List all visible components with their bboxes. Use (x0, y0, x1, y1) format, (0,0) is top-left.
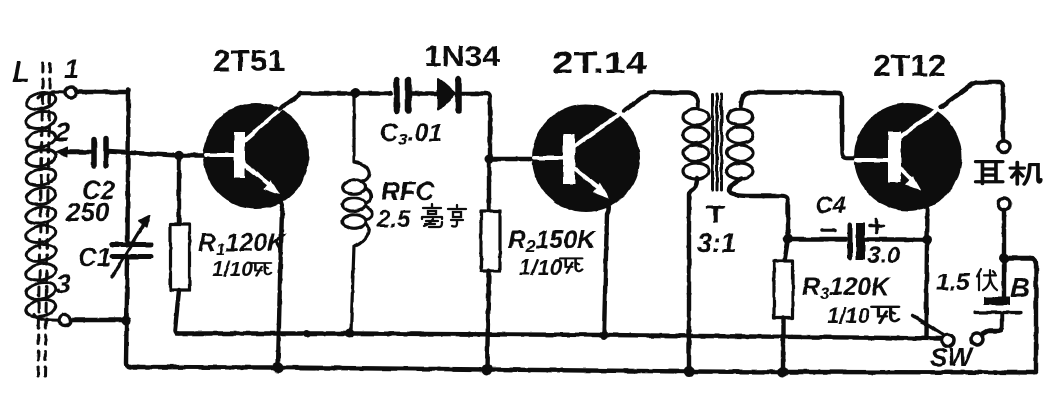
node 3 terminal (60, 315, 71, 326)
junction base 2T51 (174, 151, 183, 160)
junction C4 right / emitter 2T12 (922, 235, 932, 245)
label wa (R3) (872, 307, 899, 323)
wire junction to battery (1002, 258, 1006, 297)
svg-text:R1120K: R1120K (198, 229, 287, 259)
svg-text:R3120K: R3120K (802, 273, 891, 303)
svg-text:R2150K: R2150K (508, 226, 597, 256)
wire C2 to base junction (108, 152, 179, 156)
node 1 terminal (66, 87, 77, 98)
label wa (R1) (250, 263, 271, 276)
wire left vertical (tap1 down to C1) (128, 90, 129, 241)
wire base 2T51 (179, 153, 206, 157)
wire primary bottom to bus (689, 178, 697, 370)
transformer core (713, 94, 722, 190)
label fu (1.5V) (977, 269, 997, 290)
junction RFC bottom (346, 329, 355, 338)
label plus (870, 220, 883, 233)
svg-text:1/10: 1/10 (212, 258, 253, 281)
label minus (822, 228, 835, 232)
ferrite rod dashed line (top) (38, 63, 50, 378)
wire secondary bottom to C4/R3 junction (729, 179, 788, 236)
svg-text:C3.01: C3.01 (380, 119, 442, 149)
svg-text:2: 2 (54, 117, 70, 147)
earphone terminal bottom (998, 198, 1010, 210)
svg-text:C1: C1 (78, 242, 111, 272)
svg-text:1N34: 1N34 (424, 41, 500, 73)
wire emitter 2T14 down (604, 200, 609, 334)
svg-text:1: 1 (64, 54, 79, 84)
diode D1 1N34 (439, 79, 456, 110)
capacitor C3 (397, 80, 409, 111)
wire C3 to diode (412, 91, 438, 95)
wire earphone bottom down (1002, 210, 1006, 258)
wire junction to right edge (1004, 258, 1036, 371)
svg-text:2.5: 2.5 (376, 206, 411, 233)
junction R3 bus (778, 367, 789, 378)
junction RFC top (351, 88, 361, 98)
svg-text:1.5: 1.5 (936, 269, 970, 296)
junction small on middle rail (304, 330, 311, 337)
svg-text:3.0: 3.0 (867, 242, 901, 269)
wire middle rail (176, 334, 941, 339)
junction emitter 2T14 (600, 331, 609, 340)
wire secondary top to 2T12 base (741, 93, 856, 159)
junction C4/R3 (783, 234, 793, 244)
svg-text:2T51: 2T51 (213, 43, 285, 78)
resistor R2 (487, 159, 491, 211)
junction primary bus (684, 366, 695, 377)
svg-text:B: B (1010, 272, 1030, 303)
junction R2 bus (482, 364, 493, 375)
resistor R1 (177, 156, 181, 224)
svg-text:2T12: 2T12 (873, 48, 946, 83)
wire tap2 to C2 (62, 150, 91, 154)
wire emitter 2T51 down (277, 196, 282, 367)
svg-text:1/10: 1/10 (519, 255, 563, 280)
wire tap3 to junction (71, 318, 126, 322)
svg-text:RFC: RFC (381, 176, 436, 206)
wire emitter 2T12 down (925, 203, 928, 336)
wire collector 2T12 to earphone (941, 83, 1003, 140)
label wa (R2) (560, 258, 582, 272)
transformer T primary winding (683, 109, 709, 179)
transistor Q1 2T51 (203, 103, 309, 209)
junction base 2T14 (485, 155, 494, 164)
wire collector 2T51 to top rail (280, 94, 390, 110)
resistor R3 (785, 239, 789, 261)
junction emitter 2T51 bus (273, 362, 284, 373)
wire collector 2T14 to transformer (624, 93, 698, 112)
capacitor C4 (788, 237, 846, 241)
svg-text:2T.14: 2T.14 (552, 45, 648, 80)
svg-text:L: L (12, 56, 30, 89)
capacitor C1 (variable) (112, 245, 151, 257)
svg-text:250: 250 (65, 197, 110, 227)
svg-text:C4: C4 (815, 192, 846, 219)
transformer T secondary winding (727, 109, 753, 179)
svg-text:3:1: 3:1 (697, 228, 736, 258)
label hao heng (RFC 2.5mH) (422, 204, 442, 227)
svg-text:SW: SW (930, 342, 974, 372)
wire tap1 to corner (77, 90, 126, 94)
svg-text:1/10: 1/10 (827, 303, 871, 328)
earphone terminal top (998, 141, 1010, 153)
svg-text:T: T (706, 202, 725, 229)
capacitor C2 (94, 139, 106, 166)
junction battery top (999, 253, 1009, 263)
switch SW (942, 335, 954, 347)
wire bottom bus (133, 367, 1036, 373)
inductor RFC (343, 95, 372, 332)
wire base 2T14 (489, 157, 534, 161)
node 2 tap arrow (55, 147, 67, 157)
svg-text:3: 3 (56, 269, 71, 299)
battery B (984, 297, 1010, 305)
transistor Q3 2T12 (854, 103, 962, 211)
antenna coil L (25, 90, 65, 320)
label er ji (earphone) (976, 162, 1003, 184)
wire C1 to tap3 line (126, 257, 131, 368)
transistor Q2 2T14 (532, 104, 640, 212)
wire diode to corner down to base junction (462, 94, 490, 159)
junction tap3 (121, 316, 130, 325)
